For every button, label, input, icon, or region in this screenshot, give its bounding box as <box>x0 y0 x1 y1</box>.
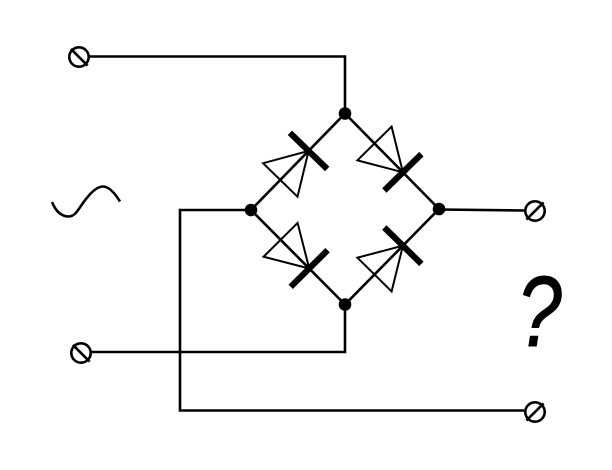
diode D1 (left node to top node) <box>263 133 327 197</box>
wire left-bottom edge <box>251 210 345 305</box>
unknown load label "?" <box>517 257 562 369</box>
node top (junction dot) <box>339 107 352 120</box>
wire left-top edge <box>251 114 345 211</box>
terminal T1 (AC input top-left) <box>69 47 88 66</box>
wire from T1 to top node <box>90 57 346 114</box>
wire from right node to right output terminal <box>439 210 525 211</box>
wire from T2 to bottom node <box>92 305 346 353</box>
terminal T2 (AC input bottom-left) <box>71 343 90 362</box>
bridge diamond wires <box>251 114 439 305</box>
wire top-right edge <box>345 114 439 210</box>
node left (junction dot) <box>245 204 258 217</box>
node right (junction dot) <box>433 203 446 216</box>
sine wave (AC source symbol) <box>52 187 120 217</box>
terminal T3 (DC output right) <box>525 201 544 220</box>
node bottom (junction dot) <box>339 298 352 311</box>
svg-text:?: ? <box>517 257 562 369</box>
wire bottom-right edge <box>345 209 439 305</box>
diode D2 (top node to right node) <box>357 127 421 191</box>
wire from left node to bottom-right output <box>180 210 524 411</box>
diode D3 (left node to bottom node) <box>264 223 328 287</box>
terminal T4 (DC output bottom-right) <box>525 402 544 421</box>
diode D4 (bottom node to right node) <box>357 228 421 292</box>
